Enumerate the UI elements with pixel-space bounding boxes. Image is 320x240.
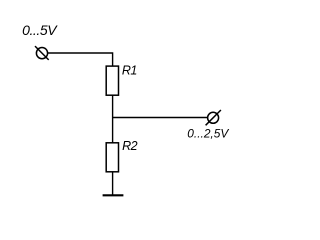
svg-text:R1: R1 <box>122 63 137 77</box>
svg-text:0...5V: 0...5V <box>22 22 58 38</box>
wire from R2 bottom to ground <box>112 172 114 196</box>
svg-text:0...2,5V: 0...2,5V <box>187 126 229 140</box>
wire from node OUT to terminal T2 <box>113 117 208 119</box>
svg-text:R2: R2 <box>122 139 138 153</box>
terminal T1 (0...5V input) <box>35 46 49 60</box>
terminal T2 (0...2,5V output) <box>206 110 221 125</box>
resistor R1 <box>106 66 118 95</box>
wire from T1 to R1 top <box>48 53 113 66</box>
wire from R1 bottom to R2 top <box>112 95 114 143</box>
resistor R2 <box>106 143 118 172</box>
ground <box>103 194 124 196</box>
